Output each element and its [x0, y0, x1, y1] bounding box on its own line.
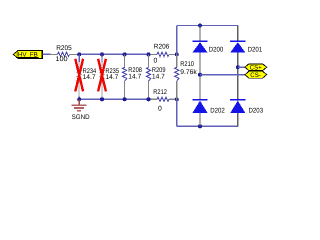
resistor R235 (DNP) vertical branch [100, 54, 119, 99]
resistor R206 [150, 43, 175, 64]
wire R212 to bridge rail [175, 98, 176, 100]
junction dot bottom wire / D202 [198, 124, 202, 128]
junction dot bottom wire / ground [77, 97, 81, 101]
DNP red X over R234 [75, 59, 83, 92]
wire R206 to bridge rail [175, 53, 176, 55]
wire flag to R205 [43, 53, 51, 55]
junction dot top wire / D200 [198, 24, 202, 28]
junction dot bottom wire / R209 [147, 97, 151, 101]
svg-text:SGND: SGND [72, 114, 90, 121]
junction dot main wire / R209 [147, 52, 151, 56]
svg-text:R205: R205 [56, 45, 72, 52]
DNP red X over R235 [98, 59, 106, 92]
svg-text:R212: R212 [153, 89, 167, 96]
svg-text:0: 0 [158, 106, 162, 113]
svg-text:14.7: 14.7 [83, 74, 96, 81]
diode D202 [192, 75, 225, 127]
junction dot D200/D202 CS- node [198, 73, 202, 77]
svg-text:D200: D200 [209, 47, 224, 54]
svg-text:D201: D201 [248, 47, 263, 54]
R210 bottom pin (grey) [176, 81, 178, 99]
R210 top pin (grey) [176, 54, 178, 67]
bottom wire ground to R212 [79, 98, 150, 100]
diode D200 [192, 26, 223, 75]
wire CS+ [238, 66, 245, 68]
wire R205 node to R209 node [77, 53, 150, 55]
svg-text:9.76k: 9.76k [180, 69, 197, 76]
svg-text:14.7: 14.7 [105, 74, 118, 81]
svg-text:R206: R206 [154, 43, 170, 50]
resistor R210 [175, 61, 198, 81]
junction dot main wire / left rail [175, 52, 179, 56]
junction dot bottom wire / R235 [100, 97, 104, 101]
bridge bottom wire [177, 125, 238, 127]
svg-text:D202: D202 [210, 107, 225, 114]
resistor R208 vertical branch [122, 54, 142, 99]
diode D203 [230, 67, 263, 126]
net flag IHV_FB [13, 50, 42, 59]
diode D201 [230, 26, 262, 68]
svg-text:14.7: 14.7 [128, 74, 141, 81]
junction dot main wire / R208 [123, 52, 127, 56]
svg-text:D203: D203 [249, 107, 264, 114]
bridge left rail (lower blue segment) [176, 99, 178, 126]
bridge top wire [177, 25, 238, 27]
svg-text:R210: R210 [180, 61, 194, 68]
svg-text:14.7: 14.7 [152, 74, 165, 81]
resistor R209 vertical branch [146, 54, 165, 99]
ground SGND [72, 99, 90, 121]
junction dot D201/D203 CS+ node [236, 65, 240, 69]
junction dot bottom wire / left rail [175, 97, 179, 101]
svg-text:CS+: CS+ [250, 65, 262, 72]
off-page connector CS- [245, 71, 267, 79]
resistor R205 [51, 45, 78, 63]
svg-text:CS-: CS- [250, 72, 260, 79]
junction dot main wire / R234 [77, 52, 81, 56]
bridge left rail (upper blue segment) [176, 26, 178, 55]
resistor R212 [150, 89, 175, 113]
svg-text:100: 100 [55, 56, 67, 63]
svg-text:0: 0 [154, 58, 158, 65]
junction dot bottom wire / R208 [123, 97, 127, 101]
junction dot main wire / R235 [100, 52, 104, 56]
wire CS- [200, 74, 245, 76]
resistor R234 (DNP) vertical branch [77, 54, 96, 99]
off-page connector CS+ [245, 64, 267, 72]
